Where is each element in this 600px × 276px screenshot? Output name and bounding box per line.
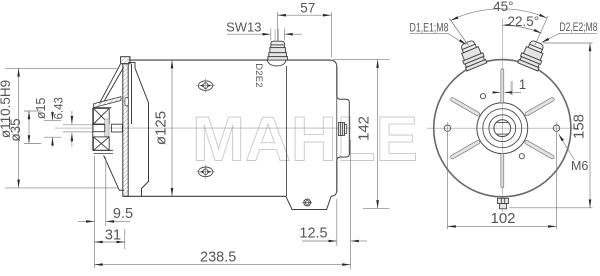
dim SW13 ext lines [270, 29, 272, 41]
dim 57 line [278, 14, 332, 16]
centerline left view [55, 127, 351, 129]
dim 12.5 line [302, 240, 336, 242]
shaft stub lines [63, 125, 93, 132]
dimension texts left view [0, 1, 372, 266]
angle line left 22.5 [449, 18, 469, 46]
arc 45 [451, 9, 548, 21]
rib down [501, 153, 504, 187]
bearing housing block [93, 108, 113, 151]
screw lower [196, 165, 215, 179]
hole upper-left [480, 94, 485, 99]
svg-text:MAHLE: MAHLE [192, 105, 418, 175]
dim o35 [28, 111, 30, 144]
pinion [111, 124, 122, 132]
terminal stud D1 (left, tilted) [457, 38, 487, 71]
arrow 142 bottom [376, 200, 379, 208]
terminal stud D2 (right, tilted) [518, 38, 548, 71]
rib upper-left [450, 97, 480, 117]
arc 22.5 [502, 25, 541, 33]
svg-text:12.5: 12.5 [299, 226, 327, 242]
arrow 158 bottom [589, 200, 592, 208]
arrow 31 left [94, 241, 102, 244]
arrow 102 left [448, 225, 456, 228]
terminal stud left view [267, 41, 287, 66]
svg-text:238.5: 238.5 [200, 250, 236, 266]
end cap neck line [336, 66, 338, 192]
angle line right 22.5 [535, 16, 548, 45]
arrow leader D2 [542, 38, 550, 43]
centerline vertical [501, 18, 503, 212]
svg-text:ø35: ø35 [8, 118, 23, 141]
rib slot gray line [511, 81, 513, 95]
arrow 9.5 right [106, 220, 114, 223]
arrow arc45 right [539, 14, 547, 18]
arrow 9.5 left [86, 220, 94, 223]
shaft section in bearing [93, 125, 105, 132]
ribs [450, 69, 555, 188]
svg-text:31: 31 [105, 228, 121, 244]
leader D2 [542, 33, 598, 42]
arrow o110 bottom [17, 180, 20, 188]
svg-text:6.43: 6.43 [54, 97, 66, 119]
arrow o35 bottom [28, 135, 31, 143]
stud shank lines [274, 29, 276, 41]
arrows left view [17, 14, 379, 266]
svg-text:57: 57 [300, 1, 315, 16]
arrow 102 right [548, 225, 556, 228]
dim 31 line [94, 241, 124, 243]
arrow 12.5 left [329, 240, 337, 243]
svg-text:142: 142 [355, 116, 372, 141]
shield web upper (hatched band) [94, 97, 122, 108]
arrow o15 top [51, 112, 54, 120]
arrow arc45 left [451, 16, 459, 20]
M6 hole left [444, 122, 450, 135]
rib lower-left [450, 140, 480, 160]
arrow 31 right [117, 241, 125, 244]
arrow 12.5 right [351, 240, 359, 243]
arrow leader D1 [459, 39, 466, 45]
bottom bolt [497, 198, 508, 209]
arrow SW13 left [263, 33, 271, 36]
outer rim circle [434, 60, 571, 197]
yoke seam [286, 66, 288, 196]
dim 9.5 line [78, 220, 94, 222]
dimension texts right view [410, 0, 598, 227]
arrow 1 right [504, 91, 512, 93]
svg-text:1: 1 [519, 77, 527, 92]
arrow arc22 right [534, 29, 542, 33]
arrow 1 left [493, 91, 501, 93]
drive end shield outline [100, 63, 149, 197]
arrows right view [448, 14, 592, 228]
svg-text:9.5: 9.5 [113, 206, 133, 222]
dim 9.5 ext lines [93, 156, 95, 268]
arrow arc22 left [502, 24, 510, 27]
bearing inner ring band [105, 119, 109, 136]
bearing lower (X-box) [93, 137, 109, 150]
flange plate notch [125, 98, 128, 106]
arrow leader M6 [559, 134, 564, 141]
screw upper [196, 79, 215, 93]
dim 12.5 ext lines [336, 199, 338, 246]
bottom foot [286, 196, 331, 209]
arrow SW13 right [284, 33, 292, 36]
rib up [501, 69, 504, 103]
dim 142 line [377, 60, 379, 209]
arrow 238.5 left [94, 263, 102, 266]
svg-text:ø15: ø15 [34, 97, 48, 119]
foot screw (washer) [303, 199, 312, 206]
arrow 158 top [589, 43, 592, 51]
svg-text:22.5°: 22.5° [507, 14, 539, 29]
svg-text:ø125: ø125 [153, 111, 170, 145]
svg-text:102: 102 [490, 210, 515, 227]
shaft flats [496, 121, 508, 123]
bearing upper (X-box) [93, 108, 109, 124]
arrow 6.43 bottom [71, 133, 74, 141]
rib upper-right [524, 97, 554, 117]
svg-text:D2,E2;M8: D2,E2;M8 [560, 22, 598, 34]
svg-text:SW13: SW13 [226, 19, 261, 34]
dim o15 [52, 111, 54, 120]
leader D1 [410, 34, 465, 44]
svg-text:158: 158 [571, 114, 588, 139]
arrow o35 top [28, 111, 31, 119]
end cap through-bolt [339, 122, 347, 135]
dim o125 line [171, 60, 173, 196]
svg-text:D2E2: D2E2 [253, 63, 264, 88]
rib lower-right [524, 140, 554, 160]
arrow 57 right [323, 14, 331, 17]
flange lower ledge [94, 153, 114, 155]
arrow o110 top [17, 68, 20, 76]
arrow o125 top [171, 60, 174, 68]
flange plate (section, hatched) [121, 57, 130, 197]
leader M6 [559, 134, 575, 160]
centerline horizontal [427, 127, 578, 129]
svg-text:M6: M6 [571, 159, 588, 173]
hub circles [477, 103, 528, 154]
motor yoke body [124, 60, 331, 196]
arrow o15 bottom [51, 137, 54, 145]
dim 6.43 [71, 111, 73, 124]
M6 hole right [553, 122, 559, 135]
dim o110.5H9 [18, 68, 20, 188]
dim SW13 line [227, 33, 270, 35]
svg-text:D1,E1;M8: D1,E1;M8 [410, 22, 449, 34]
arrow 142 top [376, 60, 379, 68]
dim 102 [448, 133, 557, 229]
arrow 238.5 right [342, 263, 350, 266]
dim 238.5 line [94, 264, 350, 266]
arrow o125 bottom [171, 188, 174, 196]
arrow 6.43 top [71, 116, 74, 124]
hole lower-right [519, 154, 524, 159]
arrow 57 left [278, 14, 286, 17]
dim 1 (rib width) [494, 91, 521, 93]
end cap [331, 60, 350, 196]
dim 158 [509, 43, 593, 208]
svg-text:45°: 45° [493, 0, 513, 14]
